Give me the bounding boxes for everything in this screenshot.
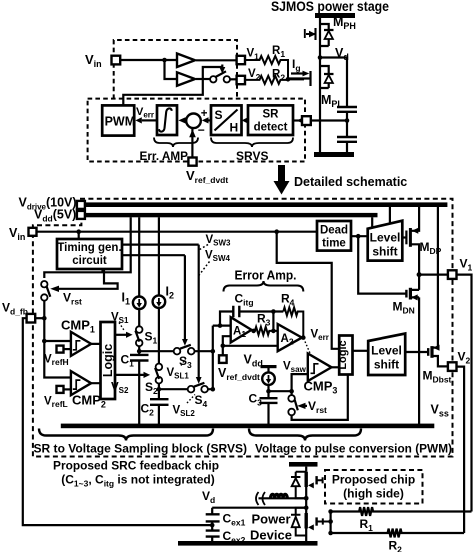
- svg-text:−: −: [198, 123, 205, 137]
- wire V_in branch to Logic: [277, 232, 340, 349]
- svg-text:Device: Device: [250, 528, 292, 543]
- box Level shift (lower): [368, 334, 405, 376]
- terminal V_ref_dvdt (main): [219, 355, 227, 363]
- supply bar top: [315, 13, 355, 18]
- brace Error Amp: [224, 281, 304, 292]
- node V_err: [301, 335, 306, 340]
- resistor R_2 (bottom): [331, 529, 465, 538]
- svg-text:shift: shift: [374, 358, 399, 372]
- svg-text:Level: Level: [370, 231, 401, 245]
- wire dead time branch to M_DN gate: [358, 236, 406, 293]
- transistor M_PL: [320, 58, 334, 153]
- node V_d: [318, 55, 323, 60]
- ground bar power stage: [314, 152, 354, 157]
- feedback wire V_d_fb to bottom: [23, 318, 212, 525]
- transistor M_DN: [405, 290, 407, 298]
- power MOSFET low side: [305, 498, 307, 513]
- wire sum to V_ref_dvdt terminal: [191, 128, 193, 157]
- svg-text:S: S: [215, 108, 223, 122]
- wire V_rst switch to logic bottom: [292, 375, 348, 420]
- summing junction: [186, 114, 201, 129]
- terminal V_1 (main): [448, 270, 457, 279]
- terminal V_ref_dvdt (top): [188, 158, 196, 166]
- comparator CMP_3: [308, 354, 332, 382]
- body diode high side: [291, 472, 306, 499]
- control S3 from timing: [122, 255, 185, 340]
- resistor R1 (top): [245, 56, 288, 79]
- svg-text:Voltage to pulse conversion (P: Voltage to pulse conversion (PWM): [255, 442, 452, 456]
- bus bar V_dd: [85, 213, 378, 217]
- box Logic (SRVS): [101, 322, 116, 399]
- wire V_in to buffers: [120, 59, 177, 61]
- switch V_rst (saw): [288, 395, 295, 402]
- control S4 from timing: [122, 245, 199, 378]
- capacitor C_3: [260, 398, 278, 403]
- terminal V_refL: [57, 386, 64, 393]
- svg-text:Logic: Logic: [101, 344, 115, 377]
- brace SRVS block: [39, 429, 213, 441]
- wire V_d line: [212, 508, 306, 514]
- switch S_3: [174, 348, 181, 355]
- wire saw node: [269, 390, 292, 392]
- op-amp A_2: [278, 324, 302, 351]
- noise marks: [256, 492, 265, 505]
- wire SR detect to S/H: [247, 119, 249, 121]
- svg-text:H: H: [230, 121, 239, 135]
- wire V_d_fb to comparators: [35, 317, 44, 319]
- wires CMP outputs to logic: [91, 344, 100, 383]
- svg-text:Proposed chip: Proposed chip: [332, 473, 415, 487]
- wire I_g to M_PL gate: [288, 78, 304, 80]
- svg-text:Timing gen.: Timing gen.: [57, 242, 121, 254]
- terminal square (SRVS sense): [302, 116, 311, 125]
- buffer amp top: [177, 54, 195, 68]
- svg-text:Power: Power: [251, 512, 290, 527]
- svg-text:Logic: Logic: [337, 340, 349, 369]
- dashed box Proposed chip (high side): [325, 470, 423, 504]
- dotted V_err to CMP3: [305, 342, 311, 356]
- node cap midpoint: [345, 118, 350, 123]
- node V_d at device: [304, 505, 309, 510]
- resistor R_1 (bottom): [331, 507, 472, 516]
- svg-text:SR to Voltage Sampling block (: SR to Voltage Sampling block (SRVS): [34, 442, 248, 456]
- bus bar V_ss: [61, 424, 435, 429]
- node cap divider mid: [211, 521, 213, 530]
- box PWM: [102, 105, 134, 135]
- current source I_2: [158, 217, 160, 295]
- wire integrator to PWM: [142, 119, 157, 121]
- svg-text:time: time: [322, 238, 346, 250]
- op-amp A_1: [231, 317, 252, 342]
- capacitor upper (power stage): [337, 107, 357, 112]
- node gate junction: [330, 512, 332, 534]
- node column S3/S4 outputs: [212, 326, 214, 390]
- arrow Detailed schematic: [278, 165, 285, 181]
- brace SRVS: [211, 138, 293, 148]
- node V_1: [417, 272, 422, 277]
- comparator CMP_2: [71, 371, 91, 395]
- brace Err. AMP: [154, 138, 198, 148]
- buffer amp bottom: [165, 60, 178, 79]
- svg-text:SRVS: SRVS: [236, 149, 268, 163]
- dashed box proposed SRC feedback chip: [33, 199, 453, 457]
- dashed box upper (feedback chip, top part): [114, 40, 237, 99]
- capacitor lower (power stage): [337, 137, 357, 142]
- svg-text:detect: detect: [254, 122, 288, 134]
- inductor (parasitic): [271, 494, 288, 498]
- wire A1 lower input to V_ref_dvdt: [223, 336, 231, 346]
- svg-text:Err. AMP: Err. AMP: [140, 149, 189, 163]
- terminal V_refH: [57, 346, 64, 353]
- capacitor C_2: [150, 399, 169, 405]
- transistor M_DP: [402, 236, 406, 238]
- wire logic to level shift (lower): [353, 350, 369, 352]
- wire PWM output to switch control: [123, 67, 222, 105]
- wire timing box to V_rst control: [59, 269, 118, 289]
- bus bar V_drive: [85, 202, 448, 207]
- wire drop to timing box: [78, 232, 80, 239]
- resistor R2 (top): [245, 76, 288, 84]
- arrow V_S2: [115, 374, 144, 376]
- svg-text:shift: shift: [372, 245, 397, 259]
- box Timing gen. circuit: [57, 239, 122, 269]
- brace PWM block: [249, 429, 361, 441]
- box Dead time: [317, 221, 351, 251]
- node R1-R2 junction: [286, 77, 291, 82]
- wire CMP3 to logic: [332, 366, 340, 368]
- capacitor C_ex2: [206, 531, 220, 537]
- svg-text:Level: Level: [371, 344, 402, 358]
- switch S_1: [136, 326, 143, 333]
- capacitor C_1: [130, 355, 149, 361]
- power device drain bar: [289, 462, 318, 467]
- box S/H: [211, 105, 242, 135]
- node high-side source: [304, 496, 309, 501]
- box integrator: [157, 105, 177, 135]
- arrow V_S1: [115, 334, 126, 336]
- svg-text:+: +: [201, 108, 208, 120]
- wire V_1 to R_1: [457, 275, 472, 512]
- transistor M_PH: [320, 18, 334, 58]
- current source (saw): [262, 372, 275, 385]
- wire parasitic stub: [259, 497, 307, 499]
- wire V_in long horizontal: [37, 231, 318, 233]
- wire Vdd bar to V_rst switch: [44, 217, 130, 278]
- svg-text:SR: SR: [263, 109, 280, 121]
- wire integrator feedback line: [220, 312, 283, 326]
- wire V_d to cap branch: [320, 58, 347, 108]
- wire C1 top plate line: [139, 350, 213, 352]
- svg-text:Dead: Dead: [320, 225, 348, 237]
- wire S/H to sum: [208, 119, 211, 121]
- svg-text:I: I: [303, 26, 307, 41]
- body diode low side: [291, 508, 306, 536]
- svg-text:Vdd(5V): Vdd(5V): [34, 208, 76, 224]
- switch (buffer2 output): [196, 78, 210, 80]
- power MOSFET high side: [305, 467, 307, 472]
- terminal V_2 (top): [237, 76, 245, 84]
- wire cap mid to SR detect terminal: [304, 119, 348, 121]
- wire sum to integrator: [183, 119, 186, 121]
- level shift (upper) feeds: [372, 207, 390, 227]
- switch S_2: [156, 364, 163, 371]
- ground bar bottom: [178, 541, 318, 546]
- current source I_1: [138, 217, 140, 296]
- box Logic (PWM): [339, 336, 352, 375]
- terminal V_1 (top): [237, 56, 245, 64]
- switch V_rst (left): [41, 281, 47, 287]
- wire buffer1 to V1: [196, 59, 237, 61]
- wire dead time to level shift (upper): [351, 235, 368, 237]
- svg-text:(high side): (high side): [343, 487, 404, 501]
- wire S4 line: [159, 388, 213, 390]
- svg-text:CMP1: CMP1: [61, 318, 95, 335]
- svg-text:SJMOS power stage: SJMOS power stage: [271, 0, 389, 14]
- svg-text:CMP3: CMP3: [304, 379, 338, 396]
- wire V_2 to R_2: [457, 367, 465, 533]
- box SR detect: [248, 105, 293, 135]
- svg-text:Detailed schematic: Detailed schematic: [294, 175, 407, 189]
- transistor M_Dbst: [405, 351, 428, 353]
- box Level shift (upper): [368, 221, 403, 261]
- dashed box lower (feedback chip, bottom part): [88, 99, 305, 162]
- switch S_4: [188, 386, 195, 393]
- svg-text:circuit: circuit: [72, 255, 107, 267]
- svg-text:Error Amp.: Error Amp.: [235, 268, 297, 283]
- terminal V_2 (main): [448, 362, 457, 371]
- svg-text:Proposed SRC feedback chip: Proposed SRC feedback chip: [53, 459, 219, 473]
- svg-text:PWM: PWM: [105, 115, 136, 129]
- wire switch to V_d_fb node: [43, 301, 45, 318]
- capacitor C_ex1: [206, 514, 220, 521]
